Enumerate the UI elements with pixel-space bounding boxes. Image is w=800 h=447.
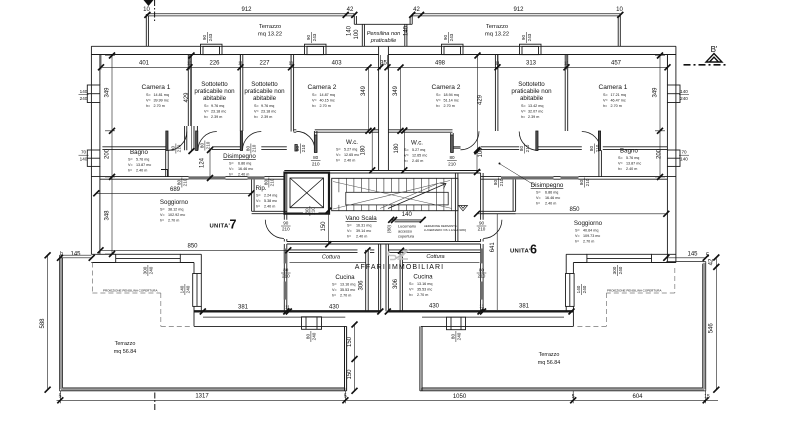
svg-text:457: 457 [611, 61, 622, 67]
641 dim [496, 214, 498, 310]
svg-text:5: 5 [572, 394, 575, 400]
svg-text:180: 180 [394, 143, 400, 154]
svg-text:Sottotetto: Sottotetto [201, 81, 228, 88]
svg-text:80: 80 [449, 155, 455, 160]
svg-text:V=: V= [336, 153, 341, 157]
svg-text:10: 10 [616, 7, 623, 13]
svg-text:h=: h= [409, 293, 413, 297]
850 dim right [477, 213, 666, 215]
svg-text:V=: V= [347, 229, 352, 233]
svg-text:h=: h= [229, 173, 233, 177]
svg-text:349: 349 [105, 87, 111, 98]
svg-text:Bagno: Bagno [130, 149, 148, 156]
svg-text:W.c.: W.c. [346, 139, 358, 146]
svg-text:S=: S= [575, 229, 580, 233]
svg-text:210: 210 [448, 161, 456, 166]
svg-text:2.70 m: 2.70 m [320, 104, 331, 108]
door arc camera1 L [168, 132, 187, 151]
svg-text:S=: S= [128, 158, 133, 162]
svg-text:2.70 m: 2.70 m [444, 104, 455, 108]
svg-text:7: 7 [230, 218, 237, 232]
stairs east wall [455, 173, 458, 242]
svg-text:PROIEZIONE PENSILINA COPERTURA: PROIEZIONE PENSILINA COPERTURA [103, 289, 157, 293]
stairs up arrow [388, 183, 446, 208]
svg-text:300: 300 [612, 266, 617, 274]
svg-text:2.40 m: 2.40 m [356, 235, 367, 239]
tick on kitchen wall R [398, 248, 404, 254]
svg-text:12.65 mc: 12.65 mc [344, 153, 359, 157]
kitchen west exterior wall left [194, 254, 201, 326]
svg-text:210: 210 [282, 227, 290, 232]
right terrace outline [420, 262, 706, 391]
vano scala [346, 215, 378, 239]
disimpegno north wall segs right [481, 147, 582, 150]
svg-text:16.46 mc: 16.46 mc [238, 167, 253, 171]
room divider wall sottotetto226/227 [240, 55, 243, 132]
svg-text:39.14 mc: 39.14 mc [356, 229, 371, 233]
svg-text:h=: h= [436, 104, 440, 108]
wc/camera2 wall left [294, 130, 379, 132]
svg-text:912: 912 [241, 7, 252, 13]
svg-text:90: 90 [283, 221, 289, 226]
svg-text:2.24 mq: 2.24 mq [264, 194, 277, 198]
svg-text:11: 11 [187, 61, 192, 66]
svg-text:240: 240 [618, 266, 623, 274]
svg-text:2.40 m: 2.40 m [136, 169, 147, 173]
bottom dim line [57, 391, 719, 403]
flue bar kitchen L top [284, 249, 287, 264]
sottotetto 313 [511, 81, 552, 102]
right exterior wall [667, 46, 676, 262]
watermark logo [388, 250, 409, 260]
svg-text:210: 210 [269, 178, 274, 186]
svg-text:h=: h= [204, 115, 208, 119]
svg-text:2.40 m: 2.40 m [344, 159, 355, 163]
svg-text:V=: V= [160, 213, 165, 217]
room divider wall 227/camera2 left [291, 55, 294, 132]
unita 6 [510, 243, 537, 257]
svg-text:2.39 m: 2.39 m [261, 115, 272, 119]
bagno R [618, 148, 641, 172]
svg-text:150: 150 [347, 336, 353, 347]
left terrace parapet gray [61, 256, 346, 389]
svg-text:313: 313 [526, 61, 537, 67]
door arc camera2 L [296, 131, 315, 150]
svg-text:210: 210 [478, 274, 486, 279]
soggiorno R [574, 220, 603, 244]
svg-text:h=: h= [575, 240, 579, 244]
svg-text:226: 226 [209, 61, 220, 67]
svg-text:5.27 mq: 5.27 mq [412, 148, 425, 152]
svg-text:210: 210 [525, 144, 530, 152]
lucernario bar [395, 221, 421, 223]
588 dim left [47, 255, 49, 389]
stairs diagonal section lines [333, 181, 452, 210]
wc door dark jamb R [451, 135, 454, 153]
elevator shaft walls [285, 173, 330, 214]
svg-text:80: 80 [589, 146, 594, 152]
svg-text:1317: 1317 [195, 394, 209, 400]
svg-text:38.12 mq: 38.12 mq [168, 208, 183, 212]
fraction labels rotated chimneys [142, 32, 623, 342]
room divider wall camera2R/sottotettoR [495, 55, 498, 132]
svg-text:UNITA': UNITA' [210, 224, 231, 230]
svg-text:S=: S= [618, 156, 623, 160]
camera1 L [142, 84, 171, 108]
svg-text:80: 80 [313, 155, 319, 160]
wc door dark jamb L [314, 135, 317, 153]
svg-text:90: 90 [443, 35, 448, 41]
cucina R [409, 274, 433, 298]
svg-text:S=: S= [256, 194, 261, 198]
145 dim left [60, 257, 92, 259]
svg-text:2.40 m: 2.40 m [264, 205, 275, 209]
430/381 dim right [388, 311, 572, 313]
left terrace east wall [345, 326, 347, 391]
wc right walls [451, 133, 454, 153]
svg-text:17.21 mq: 17.21 mq [611, 93, 626, 97]
sliding bar disimpegno R b [561, 176, 579, 179]
pensilina side stubs [362, 24, 407, 46]
cucina L [332, 274, 355, 298]
window soggiorno right 300/240 [587, 254, 652, 262]
850 dim left [101, 249, 289, 251]
wc/camera2 wall right [388, 130, 460, 148]
svg-text:2.40 m: 2.40 m [238, 173, 249, 177]
svg-text:80: 80 [245, 146, 250, 152]
svg-text:h=: h= [146, 104, 150, 108]
svg-text:h=: h= [536, 202, 540, 206]
svg-text:S=: S= [536, 191, 541, 195]
bottom chimney right [447, 317, 466, 330]
svg-text:h=: h= [404, 159, 408, 163]
svg-text:16.31 mq: 16.31 mq [356, 224, 371, 228]
svg-text:210: 210 [205, 141, 210, 149]
soggiorno L [160, 199, 189, 223]
svg-text:306: 306 [393, 278, 399, 289]
door pocket walls left [185, 126, 198, 150]
svg-text:140: 140 [402, 212, 413, 218]
soggiorno south wall left [91, 254, 201, 262]
building top outer wall [91, 45, 676, 47]
wc L [336, 139, 359, 163]
svg-text:abitabile: abitabile [520, 95, 544, 102]
room dim line y67 left [101, 55, 381, 70]
svg-text:9.76 mq: 9.76 mq [211, 104, 224, 108]
DOORS [166, 131, 601, 239]
svg-text:39.99 mc: 39.99 mc [154, 99, 169, 103]
bagno east wall right [599, 150, 602, 176]
svg-text:210: 210 [595, 144, 600, 152]
kitchen east wall pair left [366, 250, 369, 311]
svg-text:2.70 m: 2.70 m [611, 104, 622, 108]
svg-text:Cottura: Cottura [426, 254, 444, 260]
svg-text:80: 80 [199, 143, 204, 149]
right terrace parapet gray [421, 263, 704, 390]
svg-text:124: 124 [199, 157, 205, 168]
door arc sott313 R [519, 132, 538, 151]
svg-text:240: 240 [311, 332, 316, 340]
svg-text:S=: S= [312, 93, 317, 97]
window bagno right 70/140 [667, 150, 680, 166]
svg-text:11: 11 [285, 305, 290, 310]
sliding bar disimpegno L a [189, 176, 226, 179]
window kitchen left 140/240 [193, 274, 202, 307]
svg-text:Cucina: Cucina [335, 274, 355, 281]
svg-text:S=: S= [160, 208, 165, 212]
svg-text:S=: S= [336, 148, 341, 152]
svg-text:Terrazzo: Terrazzo [115, 341, 136, 347]
svg-text:100: 100 [478, 147, 484, 158]
svg-text:80: 80 [519, 146, 524, 152]
svg-text:Sottotetto: Sottotetto [518, 81, 545, 88]
roof window chimney 4 [520, 44, 542, 54]
svg-text:349: 349 [393, 85, 399, 96]
svg-text:306: 306 [359, 280, 365, 291]
svg-text:102.92 mc: 102.92 mc [168, 213, 185, 217]
svg-text:V=: V= [536, 196, 541, 200]
cottura counter lines [290, 262, 480, 264]
svg-text:403: 403 [332, 61, 343, 67]
svg-text:51.14 mc: 51.14 mc [444, 99, 459, 103]
kitchen south wall band left [194, 310, 381, 312]
window bagno left 70/140 [87, 150, 100, 166]
svg-text:Camera 2: Camera 2 [308, 84, 337, 91]
svg-text:2.70 m: 2.70 m [417, 293, 428, 297]
camera2 L [308, 84, 337, 108]
svg-text:AFFARI IMMOBILIARI: AFFARI IMMOBILIARI [355, 264, 444, 271]
svg-text:6.86 mq: 6.86 mq [545, 191, 558, 195]
svg-text:10: 10 [143, 7, 150, 13]
svg-text:11: 11 [495, 61, 500, 66]
svg-text:140: 140 [80, 156, 88, 161]
svg-text:2.70 m: 2.70 m [583, 240, 594, 244]
180 dim wc L [371, 131, 373, 171]
svg-text:V=: V= [521, 110, 526, 114]
svg-text:243: 243 [527, 33, 532, 41]
terrazzo bottom L [114, 341, 136, 355]
svg-text:13.16 mq: 13.16 mq [340, 283, 355, 287]
svg-text:2.39 m: 2.39 m [211, 115, 222, 119]
svg-text:145: 145 [687, 252, 698, 258]
flue bar kitchen R top [480, 249, 483, 264]
svg-text:S=: S= [229, 162, 234, 166]
window kitchen right 140/240 [566, 274, 575, 307]
svg-text:V=: V= [312, 99, 317, 103]
svg-text:12.65 mc: 12.65 mc [412, 154, 427, 158]
cucina north wall left [289, 250, 375, 253]
svg-text:S=: S= [332, 283, 337, 287]
bagno L [128, 149, 151, 173]
wc left walls [314, 131, 317, 153]
svg-text:210: 210 [312, 161, 320, 166]
svg-text:80: 80 [450, 334, 455, 340]
disimpegno R leader line [500, 164, 535, 186]
svg-text:200: 200 [105, 148, 111, 159]
dimension number labels [59, 7, 710, 400]
sliding door bars [189, 176, 579, 299]
svg-text:Lucernario: Lucernario [398, 225, 416, 229]
bagno east wall left [166, 150, 169, 176]
pensilina top [354, 23, 412, 25]
roof window chimney 2 [305, 44, 327, 54]
180 dim wc R [403, 131, 405, 171]
svg-text:praticabile non: praticabile non [244, 88, 285, 95]
svg-text:h=: h= [618, 167, 622, 171]
svg-text:381: 381 [238, 305, 249, 311]
svg-text:Cucina: Cucina [413, 274, 433, 281]
svg-text:180: 180 [361, 145, 367, 156]
svg-text:90: 90 [306, 35, 311, 41]
dashed pensilina projection left [92, 263, 674, 327]
381/430 dim left [203, 311, 380, 313]
svg-text:2.40 m: 2.40 m [412, 159, 423, 163]
sliding bar disimpegno R a [501, 176, 554, 179]
150 dims terrace mid [354, 325, 356, 391]
svg-text:h=: h= [254, 115, 258, 119]
svg-text:210: 210 [499, 178, 504, 186]
svg-text:Soggiorno: Soggiorno [160, 199, 189, 206]
svg-text:80: 80 [176, 180, 181, 186]
svg-text:109.73 mc: 109.73 mc [583, 234, 600, 238]
svg-text:140: 140 [80, 89, 88, 94]
svg-text:11: 11 [479, 304, 484, 309]
svg-text:40.15 mc: 40.15 mc [320, 99, 335, 103]
svg-text:h=: h= [256, 205, 260, 209]
central demising wall upper [379, 46, 389, 170]
145 dim right [666, 257, 705, 259]
svg-text:Pensilina non: Pensilina non [367, 31, 401, 37]
svg-text:S=: S= [521, 104, 526, 108]
svg-text:Rip.: Rip. [255, 185, 266, 192]
svg-text:9.76 mq: 9.76 mq [261, 104, 274, 108]
429 dim right [477, 56, 479, 152]
camera1 R [599, 84, 628, 108]
wc south walls / vano scala north [284, 171, 480, 174]
124 dim [209, 150, 211, 178]
689 dim [96, 192, 251, 194]
section marker B' right [684, 45, 727, 65]
svg-text:145: 145 [70, 252, 81, 258]
svg-text:11: 11 [289, 61, 294, 66]
svg-text:210: 210 [301, 144, 306, 152]
svg-text:5: 5 [59, 394, 62, 400]
svg-text:210: 210 [251, 144, 256, 152]
stairs inner void [346, 192, 448, 205]
svg-text:227: 227 [259, 61, 270, 67]
svg-text:140: 140 [680, 156, 688, 161]
svg-text:h=: h= [336, 159, 340, 163]
svg-text:140: 140 [680, 89, 688, 94]
svg-text:accesso: accesso [398, 230, 412, 234]
window camera1 right [667, 85, 680, 103]
svg-text:S=: S= [603, 93, 608, 97]
svg-text:210: 210 [176, 144, 181, 152]
svg-text:150: 150 [347, 369, 353, 380]
dim ticks [45, 12, 720, 403]
svg-text:850: 850 [187, 243, 198, 249]
svg-text:18.94 mq: 18.94 mq [444, 93, 459, 97]
svg-text:588: 588 [40, 318, 46, 329]
sottotetto 226 [194, 81, 235, 102]
svg-text:S=: S= [436, 93, 441, 97]
stairs end triangle [459, 206, 468, 211]
svg-text:23.18 mc: 23.18 mc [261, 110, 276, 114]
svg-text:689: 689 [170, 187, 181, 193]
svg-text:praticabile: praticabile [370, 38, 397, 44]
svg-text:2.70 m: 2.70 m [168, 219, 179, 223]
upper terrace parapet [147, 14, 620, 16]
right terrace west wall [420, 326, 422, 391]
svg-text:13.87 mc: 13.87 mc [626, 162, 641, 166]
svg-text:Sottotetto: Sottotetto [251, 81, 278, 88]
wall camera1R/bagnoR [603, 147, 668, 150]
door arc sott226 L [198, 132, 217, 151]
terrazzo top left label [258, 24, 282, 38]
svg-text:140: 140 [346, 25, 352, 36]
svg-text:h=: h= [521, 115, 525, 119]
svg-text:S=: S= [204, 104, 209, 108]
stair treads [339, 178, 452, 210]
svg-text:6: 6 [530, 243, 537, 257]
349 dim mid R [400, 68, 402, 131]
svg-text:S=: S= [404, 148, 409, 152]
DIMLINES [48, 55, 718, 403]
svg-text:h=: h= [160, 219, 164, 223]
svg-text:Camera 1: Camera 1 [599, 84, 628, 91]
svg-text:90: 90 [521, 35, 526, 41]
svg-text:429: 429 [478, 94, 484, 105]
svg-text:42: 42 [708, 258, 714, 265]
svg-text:5: 5 [344, 394, 347, 400]
rotated dim labels [40, 25, 715, 379]
svg-text:S=: S= [409, 282, 414, 286]
door arc bagno R [582, 132, 601, 151]
svg-text:243: 243 [449, 33, 454, 41]
kitchen west wall left w/ flue [284, 244, 287, 311]
elevator X cross [290, 178, 324, 208]
disimpegno south wall right [481, 177, 561, 180]
left terrace outline [60, 255, 347, 391]
svg-text:240: 240 [148, 266, 153, 274]
svg-text:h=: h= [603, 104, 607, 108]
room divider wall sottotettoR/camera1R [565, 55, 568, 132]
sliding bar disimpegno L b [248, 176, 265, 179]
svg-text:35: 35 [380, 61, 387, 67]
svg-text:V=: V= [229, 167, 234, 171]
svg-text:604: 604 [632, 394, 643, 400]
window camera1 left [87, 85, 100, 103]
svg-text:Camera 1: Camera 1 [142, 84, 171, 91]
svg-text:13.87 mc: 13.87 mc [136, 163, 151, 167]
elevator door opening [303, 209, 319, 212]
svg-text:300: 300 [142, 266, 147, 274]
svg-text:430: 430 [329, 305, 340, 311]
bagno south wall right [579, 177, 676, 180]
door arc soggiorno L [265, 220, 284, 239]
kitchen west wall pair right [400, 244, 483, 311]
bottom chimney left [302, 317, 322, 330]
svg-text:15: 15 [704, 394, 710, 400]
svg-text:V=: V= [146, 99, 151, 103]
svg-text:5.76 mq: 5.76 mq [136, 158, 149, 162]
bagno notch left [161, 170, 168, 177]
lucernario note [398, 225, 416, 239]
svg-text:6.86 mq: 6.86 mq [238, 162, 251, 166]
central wall lower pairs [379, 244, 389, 311]
svg-text:90: 90 [479, 221, 485, 226]
kitchen east exterior wall right [566, 254, 573, 326]
